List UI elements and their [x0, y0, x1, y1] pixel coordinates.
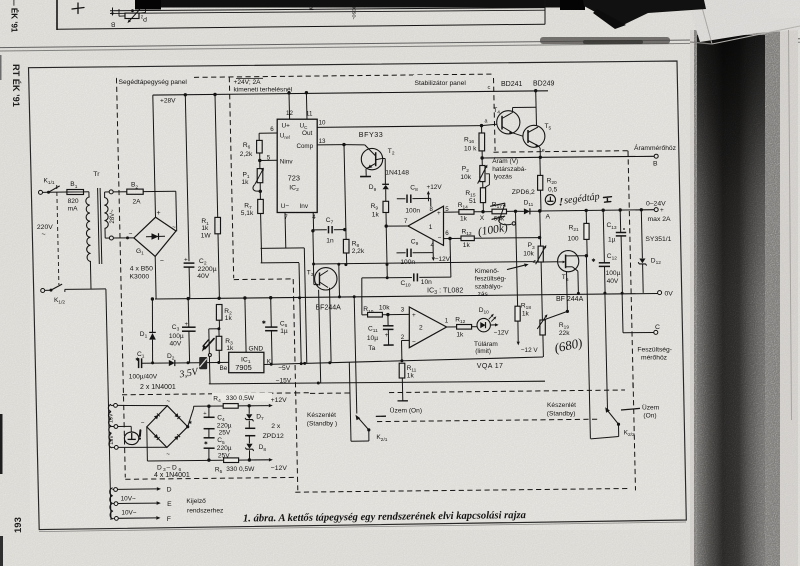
C10 rail left leg down to R10: [362, 277, 387, 279]
lower transformer core: [106, 402, 109, 520]
transformer Tr primary winding: [86, 197, 91, 261]
resistor R6: [258, 133, 260, 140]
circled earth symbol: [545, 195, 555, 205]
X line through R17 D11 to A: [483, 211, 492, 213]
0V terminal: [658, 291, 662, 295]
T4/T5 collector vertical: [535, 91, 538, 126]
fuse B1: [49, 191, 67, 193]
dashed panel boundary: top edge y77: [117, 74, 494, 78]
transformer Tr secondary winding: [105, 198, 109, 229]
opto hand-mod wire: [209, 328, 219, 330]
-15V line: [208, 363, 211, 384]
-5V rail continues as box bottom: [329, 362, 331, 364]
dashed uzem position line y421: [377, 419, 599, 421]
dashed panel boundary: segedtap left edge: [117, 78, 126, 477]
page bottom second line: [39, 522, 686, 532]
resistor R17 with strikethrough: [492, 209, 507, 214]
T2 emitter with ground: [366, 163, 376, 169]
zener D7: [248, 406, 250, 414]
pin2 inverting input down to -5V rail: [402, 339, 410, 341]
wire secondary bottom to bridge ac left: [113, 237, 133, 239]
Tr primary bottom wire to K1/2: [89, 261, 92, 288]
wire B2 to bridge ac right: [175, 191, 178, 231]
transistor T6 BF244A: [558, 251, 579, 272]
bold exclamation annotation: [139, 430, 142, 436]
wire mid tap to earth circle: [118, 425, 131, 427]
IC2 723 box: [277, 119, 317, 212]
midpoint bars: [245, 427, 255, 429]
page: left edge scan streaks: [0, 414, 3, 474]
+12V arrow feed for IC3 pin8: [427, 194, 429, 201]
op-amp 1 of TL082 (points left): [408, 206, 444, 245]
resistor R8: [343, 239, 349, 253]
dashed panel boundary: stabilizator cutout horizontal y151: [494, 151, 629, 153]
top partial figure: thin frame lines: [110, 8, 545, 11]
hand-drawn dark component: [199, 357, 207, 369]
potentiometer P2: [481, 158, 483, 166]
uzem contact short mark: [376, 415, 386, 417]
bridge minus leg down and -12V rail: [146, 427, 149, 461]
op-amp1 output to R9 node: [386, 225, 408, 227]
R9 junction down to rails: [386, 226, 387, 278]
trimmer R19: [540, 320, 545, 335]
resistor R20: [539, 158, 541, 160]
T6 right leg to 0V rail: [566, 266, 573, 268]
C10 link down from pin6: [449, 239, 452, 278]
VQA17 box left edge: [299, 264, 301, 298]
top partial figure: black bar: [135, 0, 585, 8]
capacitor C11: [387, 315, 389, 326]
transformer Tr core: [98, 188, 100, 264]
dashed panel boundary: stabilizator right edge x628: [628, 151, 636, 491]
R12 output resistor: [447, 326, 457, 328]
zener D8: [246, 444, 252, 449]
top partial figure: plus mark: [72, 3, 84, 14]
fuse B2: [113, 191, 127, 193]
current sense wire to Arammerohoz B: [482, 156, 540, 159]
wire bridge plus up to +28V rail: [153, 95, 156, 217]
transistor T4: [497, 111, 520, 134]
potentiometer P1: [259, 161, 261, 169]
dashed panel boundary: stabilizator cutout vertical x493.5: [494, 78, 496, 151]
P3 wiper kink and T6 gate line: [533, 260, 536, 262]
T3 legs down: [327, 269, 329, 271]
capacitor C9: [397, 252, 406, 254]
Tr secondary terminals: [104, 192, 106, 198]
node a on T4 base: [480, 124, 483, 127]
capacitor C4 column: [207, 405, 210, 408]
resistor R18 column from X line: [516, 211, 518, 306]
T4 collector to top rail link: [512, 108, 514, 113]
0-24V output line and terminal: [540, 210, 654, 211]
lower transformer terminals 15V: [110, 405, 112, 406]
diode D11: [524, 208, 530, 214]
resistor R11: [399, 363, 405, 378]
resistor R7: [259, 191, 261, 199]
dashed panel boundary: segedtap right edge x229: [229, 77, 233, 278]
bridge diodes on edges: [174, 413, 178, 418]
7905 GND pin up to 0V rail: [243, 296, 246, 299]
rail link right of T3: [338, 295, 341, 298]
small o mark: [208, 354, 211, 357]
raw negative rail y363: [142, 362, 169, 364]
IC1 7905 box: [229, 352, 264, 372]
0V rail across: [155, 294, 658, 300]
resistor R21 column: [585, 209, 588, 212]
op-amp1 pin4 down with C9 and -12V arrow: [432, 240, 434, 253]
resistor R14: [459, 210, 474, 215]
transistor T3 BF244A: [315, 268, 337, 290]
LED D10: [477, 318, 490, 331]
capacitor C6 column: [269, 296, 272, 299]
D2 diode: [169, 360, 175, 366]
panel label: Stabilizator panel: [413, 75, 481, 84]
pot P3: [538, 209, 541, 212]
switch K2/1: [349, 362, 351, 441]
resistor R10: [362, 314, 368, 316]
top partial figure: pot P2 (upside-down): [125, 13, 139, 18]
feedback rail y264: [314, 262, 533, 264]
schematic outer border: [29, 61, 687, 530]
resistor R13: [461, 236, 474, 241]
T6 drain to R21 column: [566, 255, 587, 257]
-5V output line: [264, 357, 543, 365]
C10 comp rail: [387, 277, 412, 279]
capacitor C7: [313, 229, 327, 231]
wire K1/2 down-feed to lower transformer: [91, 288, 106, 290]
hand-drawn arrow annotation: [205, 339, 214, 349]
transistor T5: [523, 125, 545, 147]
dashed panel boundary: x293.5 down: [293, 279, 298, 490]
top partial figure: arrow B (upside-down): [112, 8, 114, 13]
wire to C terminal Feszultsegmerohoz: [621, 293, 624, 333]
wiper rail jog from R7 bottom: [261, 262, 299, 264]
D10 output arrow -12V: [490, 324, 495, 326]
wire top 15V to bridge: [117, 404, 167, 406]
switch K1/2: [41, 289, 45, 293]
wire bridge minus down to 0V rail: [154, 256, 157, 299]
switch K2/2: [605, 293, 608, 410]
lower transformer 10V windings: [110, 488, 113, 519]
bridge rectifier G1: [134, 217, 176, 256]
page: top-right corner flap: [688, 0, 800, 42]
resistor R16: [481, 126, 483, 133]
R17 wiper hook with test point: [499, 206, 504, 221]
transistor T2 BFY33: [361, 148, 382, 169]
+24V top rail: [153, 91, 548, 95]
op-amp 2 of TL082 (points right): [409, 307, 446, 348]
page: far right page edge line: [789, 30, 792, 420]
T2 base wire from Comp: [344, 144, 365, 146]
resistor R5: [224, 458, 239, 463]
page: top separator lines between figures: [0, 39, 800, 48]
Comp vertical down to R8: [344, 145, 346, 240]
resistor R1 column: [213, 93, 216, 96]
T2 collector: [376, 159, 382, 160]
0V to K2/1 standby contact column: [353, 295, 356, 298]
capacitor C5 column: [204, 437, 215, 439]
dashed standby position line y393: [310, 392, 351, 394]
capacitor C13 column: [619, 208, 622, 211]
T6 source diag to R19: [566, 310, 569, 313]
page: black wedge scan artifact top-right: [583, 0, 706, 28]
resistor R2: [217, 297, 220, 300]
dashed panel boundary: pm12V box top y392: [122, 393, 295, 395]
lower transformer terminals 10V with arrows D E F: [114, 488, 118, 492]
T4 emitter into T5 base: [509, 131, 513, 134]
capacitor C3 column: [187, 297, 190, 300]
resistor R3: [218, 329, 220, 337]
diode D9 1N4148: [382, 183, 389, 185]
diode D12 column SY351/1: [640, 208, 643, 211]
resistor R15: [480, 188, 485, 203]
R21 column continues to K2/2 loop: [586, 256, 590, 439]
capacitor C8: [397, 198, 406, 200]
circled earth at midpoint: [124, 432, 138, 445]
capacitor C2 column: [184, 93, 187, 96]
dashed gang link K1: [57, 185, 59, 285]
bridge plus riser to +12V rail: [186, 425, 189, 428]
dashed panel boundary: stabilizator bottom y490: [295, 489, 629, 493]
wire B1 to Tr primary: [84, 191, 89, 193]
capacitor C12 column: [602, 209, 605, 212]
switch K1/1: [39, 190, 43, 194]
bridge rectifier D3-D6: [147, 406, 188, 448]
resistor R4: [223, 404, 238, 409]
D1 diode column: [151, 297, 154, 300]
bridge G1 inner diode symbol: [146, 235, 165, 238]
wire bottom 15V to bridge: [118, 446, 167, 448]
dashed panel boundary: segedtap jog y279: [234, 278, 293, 281]
lower transformer 15V windings: [108, 405, 111, 448]
resistor R9: [383, 201, 389, 212]
dashed panel boundary: pm12V box bottom y477.5: [125, 477, 295, 479]
T3 gate stub: [312, 264, 315, 285]
panel label: Segedtapegyseg panel: [117, 74, 194, 83]
T5 emitter down: [535, 144, 539, 147]
